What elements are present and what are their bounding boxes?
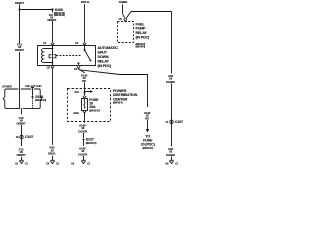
wire: option left path (OTHER) xyxy=(19,89,21,108)
op: ASD relay box outline xyxy=(38,46,96,66)
wire: option right path (4.0L A/T LHD) xyxy=(31,87,34,89)
PDC box (dashed) xyxy=(68,89,111,122)
svg-text:DG/BK: DG/BK xyxy=(166,80,176,84)
svg-text:20 (PDC): 20 (PDC) xyxy=(141,143,156,147)
svg-text:DOWN: DOWN xyxy=(98,55,109,59)
wire: arrow branch inside PDC xyxy=(85,91,91,93)
svg-text:S136: S136 xyxy=(35,95,43,99)
svg-text:C107: C107 xyxy=(175,120,183,124)
svg-text:OTHER: OTHER xyxy=(2,85,13,89)
svg-text:14: 14 xyxy=(165,120,168,124)
svg-text:DISTRIBUTION: DISTRIBUTION xyxy=(113,93,138,97)
svg-text:C1: C1 xyxy=(25,161,29,165)
pin C6 triangle xyxy=(51,66,54,68)
svg-text:C1: C1 xyxy=(56,161,60,165)
svg-text:C6: C6 xyxy=(118,17,122,21)
svg-text:PK/LG: PK/LG xyxy=(81,0,90,4)
relay armature xyxy=(49,55,51,58)
svg-text:4.0L A/T LHD: 4.0L A/T LHD xyxy=(25,84,42,88)
relay coil K1 xyxy=(41,49,43,63)
svg-text:10: 10 xyxy=(16,135,19,139)
relay fixed contact xyxy=(77,63,80,66)
svg-text:20A: 20A xyxy=(89,105,96,109)
svg-text:DG/OR: DG/OR xyxy=(78,153,88,157)
svg-text:(8W-10-17): (8W-10-17) xyxy=(86,142,97,145)
wire: DG/BK drop to fuel pump relay pin xyxy=(122,4,124,14)
node: coil top junction xyxy=(52,48,54,50)
wire: below S127 xyxy=(83,141,85,147)
wire: merged F12 output xyxy=(21,108,23,114)
svg-text:DG/BK: DG/BK xyxy=(166,153,176,157)
connector: bottom C1 (left relay wire) xyxy=(51,160,55,163)
fuel pump relay box (dashed) xyxy=(118,22,134,43)
svg-text:RELAY: RELAY xyxy=(136,31,148,35)
svg-text:FUSE: FUSE xyxy=(143,139,153,143)
svg-text:FUEL: FUEL xyxy=(136,22,146,26)
node: coil bottom junction xyxy=(52,62,54,64)
svg-text:AUTOMATIC: AUTOMATIC xyxy=(98,46,119,50)
fuse F20 body xyxy=(82,99,88,111)
svg-text:C4: C4 xyxy=(43,41,47,45)
node: relay bottom edge junction xyxy=(52,65,54,67)
pin C4 triangle xyxy=(51,43,54,46)
splice S127 dot xyxy=(83,139,85,141)
wire: K51 run from pin C6 to bottom connector xyxy=(52,69,54,145)
svg-text:(8W-10-17): (8W-10-17) xyxy=(89,109,100,112)
node: A142 junction dot xyxy=(84,92,86,94)
svg-text:A3: A3 xyxy=(71,161,75,165)
connector: bottom (A61 wire) xyxy=(170,160,174,163)
svg-text:RD: RD xyxy=(145,117,150,121)
wire: fuse output A142 DG/OR xyxy=(84,113,86,123)
wire: A61 DG/BK right run to C107 xyxy=(171,12,173,74)
node: junction dot left xyxy=(18,8,20,10)
splice S100 dot xyxy=(51,8,53,10)
connector C107 pin 14 (ring) xyxy=(170,120,173,123)
wire: diagonal branch from pin C8 to fuse 20 feed xyxy=(79,70,147,107)
svg-text:A142: A142 xyxy=(73,112,79,115)
svg-text:C1: C1 xyxy=(175,161,179,165)
svg-text:C8: C8 xyxy=(74,67,78,71)
svg-text:C107: C107 xyxy=(25,135,33,139)
svg-text:C2: C2 xyxy=(75,41,79,45)
wire: S100 down to ASD relay pin C4 xyxy=(52,11,54,13)
wire: A142 run from pin C8 into PDC xyxy=(79,69,85,73)
svg-text:POWER: POWER xyxy=(113,89,127,93)
connector C107 pin 10 (ring) xyxy=(20,135,23,138)
svg-text:(8W-12-13): (8W-12-13) xyxy=(35,99,46,102)
svg-text:TO: TO xyxy=(145,134,150,138)
wire: dashed option segment below S136 xyxy=(32,98,34,108)
connector: bottom C1 (fuel pump feed) xyxy=(82,160,86,163)
svg-text:SHUT: SHUT xyxy=(98,50,108,54)
svg-text:(8W-12-14): (8W-12-14) xyxy=(54,14,65,17)
svg-text:A1: A1 xyxy=(15,161,19,165)
wire: PK/LG feed to ASD relay pin C2 xyxy=(84,4,86,43)
svg-text:RELAY: RELAY xyxy=(98,59,110,63)
svg-text:C1: C1 xyxy=(87,161,91,165)
fuse F20 terminal top xyxy=(83,96,86,98)
svg-text:(IN PDC): (IN PDC) xyxy=(136,36,151,40)
svg-text:CENTER: CENTER xyxy=(113,97,128,101)
svg-text:C4: C4 xyxy=(46,161,50,165)
svg-text:A14: A14 xyxy=(75,91,80,94)
wire: DB/WT feed stub top left xyxy=(19,4,21,9)
svg-text:DB/WT: DB/WT xyxy=(47,18,56,22)
wire: branch from relay pin up to right bus xyxy=(126,12,131,19)
pin C2 triangle xyxy=(83,43,86,46)
svg-text:(8W-10-17): (8W-10-17) xyxy=(142,147,153,150)
relay switch blade xyxy=(84,46,86,51)
svg-text:DG/OR: DG/OR xyxy=(78,129,88,133)
wire: horizontal bus from junction to splice S100 xyxy=(20,9,53,11)
relay mechanical link (dashed) xyxy=(56,55,80,57)
svg-text:S127: S127 xyxy=(86,138,94,142)
svg-text:RD: RD xyxy=(82,79,87,83)
pin C6 triangle (fuel pump relay) xyxy=(124,19,127,21)
wire: left vertical F12 DB/WT run xyxy=(19,10,21,44)
connector: bottom (F12 wire) xyxy=(20,160,24,163)
svg-text:PUMP: PUMP xyxy=(136,27,147,31)
svg-text:DB/WT: DB/WT xyxy=(15,48,24,52)
pin C8 triangle xyxy=(77,66,80,68)
svg-text:DB/YL: DB/YL xyxy=(48,152,56,156)
svg-text:DB/WT: DB/WT xyxy=(15,1,24,5)
option box frame xyxy=(6,88,39,90)
svg-text:(8W-30-4): (8W-30-4) xyxy=(136,46,146,49)
svg-text:(IN PDC): (IN PDC) xyxy=(98,64,113,68)
arrow: to fuse 20 xyxy=(146,129,150,133)
wire: below C107 pin 10 xyxy=(21,157,23,160)
svg-text:DB/WT: DB/WT xyxy=(17,153,26,157)
svg-text:A6: A6 xyxy=(165,161,169,165)
svg-text:(8W-10-7): (8W-10-7) xyxy=(113,102,123,105)
svg-text:DG/BK: DG/BK xyxy=(119,0,129,4)
fuse F20 terminal bottom xyxy=(83,111,86,113)
splice S136 dot xyxy=(32,96,34,98)
svg-text:DB/WT: DB/WT xyxy=(17,122,26,126)
